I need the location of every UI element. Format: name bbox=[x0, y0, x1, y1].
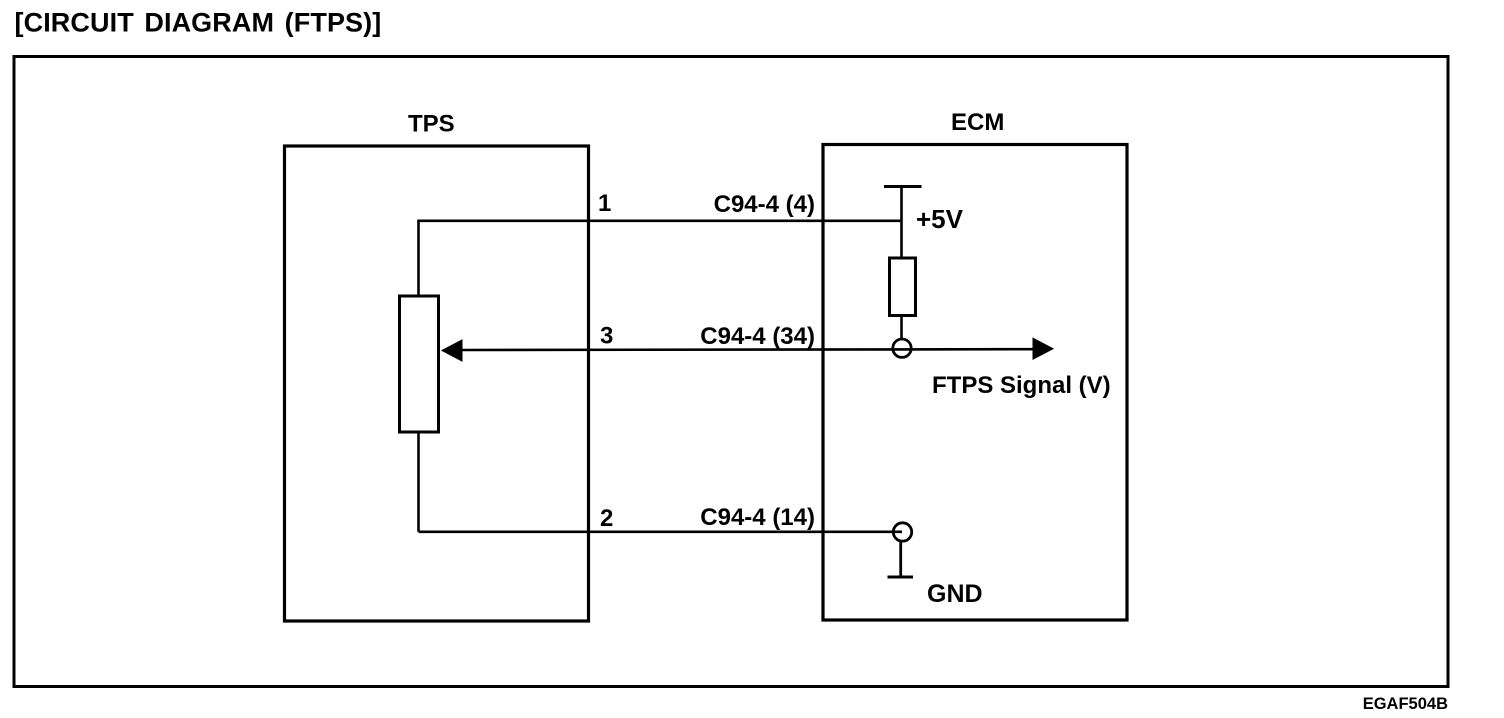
svg-text:ECM: ECM bbox=[951, 109, 1004, 136]
svg-text:+5V: +5V bbox=[916, 204, 964, 234]
svg-text:TPS: TPS bbox=[408, 111, 455, 138]
resistor (ECM pull-up) bbox=[890, 258, 916, 316]
+5V rail stem bbox=[900, 187, 903, 259]
ground stem bbox=[899, 541, 902, 578]
arrowhead FTPS signal output bbox=[1033, 338, 1053, 359]
arrowhead into potentiometer bbox=[442, 340, 462, 361]
svg-text:2: 2 bbox=[600, 505, 613, 532]
svg-text:FTPS Signal (V): FTPS Signal (V) bbox=[932, 372, 1111, 399]
wire: resistor to junction bbox=[900, 316, 903, 341]
wire pin2: horizontal to GND circle bbox=[419, 530, 903, 533]
block ECM bbox=[823, 145, 1127, 621]
node circle at GND pin bbox=[893, 523, 911, 541]
ground bar bbox=[888, 576, 914, 579]
wire pin2: riser from potentiometer bottom bbox=[417, 432, 420, 532]
svg-text:C94-4 (4): C94-4 (4) bbox=[714, 191, 815, 218]
svg-text:GND: GND bbox=[927, 580, 983, 608]
block TPS bbox=[285, 146, 589, 621]
svg-text:EGAF504B: EGAF504B bbox=[1363, 695, 1448, 713]
wire pin3: horizontal through junction to signal arrow bbox=[460, 348, 1034, 351]
wire pin1: riser from potentiometer top bbox=[417, 220, 420, 297]
potentiometer (TPS sensor element) bbox=[400, 296, 439, 432]
node junction circle on pin 3 wire bbox=[893, 339, 911, 357]
svg-text:[CIRCUIT DIAGRAM (FTPS)]: [CIRCUIT DIAGRAM (FTPS)] bbox=[15, 8, 382, 38]
+5V rail bar bbox=[884, 185, 922, 188]
svg-text:1: 1 bbox=[598, 190, 611, 217]
svg-text:C94-4 (14): C94-4 (14) bbox=[700, 504, 815, 531]
svg-text:3: 3 bbox=[600, 323, 613, 350]
svg-text:C94-4 (34): C94-4 (34) bbox=[700, 323, 815, 350]
wire pin1: horizontal to +5V line bbox=[419, 220, 902, 223]
